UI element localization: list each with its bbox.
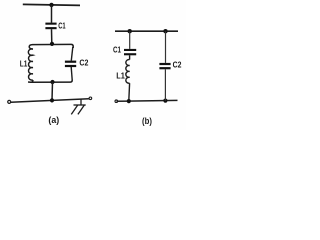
wire : tank top wire (a) — [29, 44, 73, 49]
capacitor C1 (b) plates — [124, 49, 136, 55]
wire : top rail (b) — [115, 30, 178, 32]
svg-text:(a): (a) — [48, 115, 59, 125]
wire : C1 to L1 lead (b) — [129, 55, 131, 59]
wire : C2 bottom lead (a) — [71, 67, 72, 80]
node : junction on top wire (a) — [49, 3, 53, 7]
terminal : left terminal circle (a) — [8, 100, 11, 103]
wire : C2 top lead (b) — [165, 31, 167, 63]
svg-text:C1: C1 — [113, 44, 121, 54]
wire : bottom rail (b) — [117, 99, 178, 102]
node : tank bottom junction (a) — [50, 80, 54, 84]
node : tank top junction (a) — [50, 42, 54, 46]
node : rail junction (a) — [50, 98, 54, 102]
wire : C1 top lead (a) — [51, 5, 53, 23]
svg-text:L1: L1 — [116, 71, 125, 81]
wire : C2 top lead (a) — [71, 47, 73, 61]
inductor L1 (b) coil — [126, 60, 130, 84]
wire : circuit (a) top antenna wire — [23, 4, 80, 5]
inductor L1 (a) coil — [28, 49, 33, 80]
svg-text:(b): (b) — [142, 116, 152, 126]
svg-text:C2: C2 — [79, 57, 88, 67]
svg-text:C2: C2 — [173, 60, 182, 70]
terminal : right terminal circle (a) — [89, 97, 92, 100]
capacitor C2 (b) plates — [159, 63, 170, 69]
wire : C2 bottom lead (b) — [164, 69, 166, 100]
node : bottom rail left junction (b) — [127, 99, 131, 103]
wire : tank bottom wire (a) — [28, 80, 72, 82]
ground : chassis ground symbol (a) — [71, 99, 85, 114]
wire : C1 bottom lead (a) — [51, 29, 53, 44]
node : top rail right junction (b) — [163, 29, 167, 33]
capacitor C1 (a) plates — [45, 23, 56, 30]
wire : C1 top lead (b) — [129, 31, 131, 49]
node : bottom rail right junction (b) — [163, 99, 167, 103]
svg-text:C1: C1 — [58, 21, 66, 31]
wire : bottom rail (a) — [11, 99, 89, 102]
capacitor C2 (a) plates — [65, 61, 76, 68]
svg-text:L1: L1 — [20, 59, 28, 68]
wire : L1 to rail lead (b) — [128, 83, 131, 101]
wire : tank to ground rail vertical (a) — [51, 82, 54, 100]
node : top rail left junction (b) — [128, 29, 132, 33]
terminal : left terminal circle (b) — [115, 100, 118, 103]
